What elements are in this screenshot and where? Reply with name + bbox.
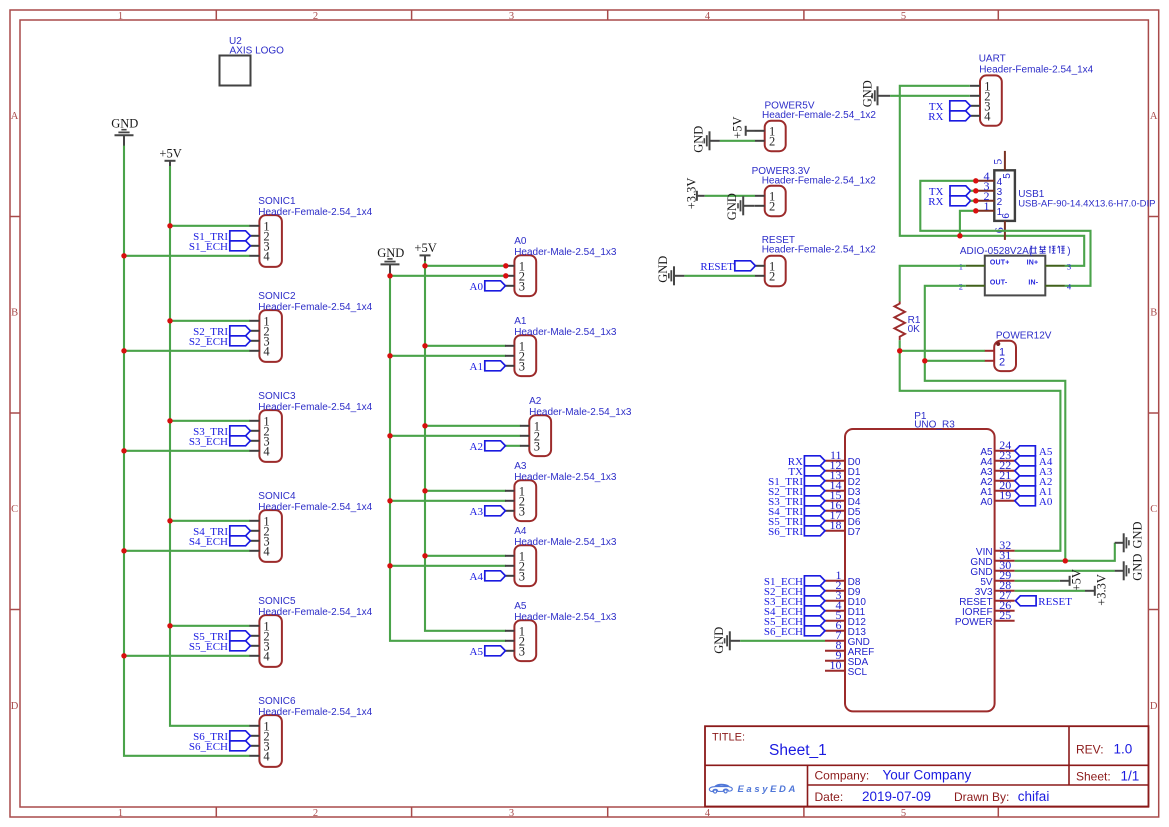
easyeda logo — [709, 784, 798, 795]
pin 18 D7 of P1 — [825, 518, 861, 538]
svg-text:+3.3V: +3.3V — [684, 178, 698, 210]
pin 29 5V of P1 — [980, 568, 1014, 588]
pin 27 RESET of P1 — [959, 588, 1014, 608]
svg-text:RX: RX — [928, 196, 943, 208]
pin 4 D11 of P1 — [825, 598, 866, 618]
net flag A0 at P1 right — [1015, 496, 1053, 508]
wire RX flag to USB pin2 — [971, 200, 977, 202]
wire GND rail to SONIC3 pin4 — [124, 450, 250, 452]
svg-text:IN+: IN+ — [1027, 260, 1039, 267]
net flag A3 at P1 right — [1015, 466, 1053, 478]
pin 13 D2 of P1 — [825, 468, 861, 488]
pin 21 A2 of P1 — [980, 468, 1014, 488]
net flag S5_ECH — [189, 641, 251, 653]
power symbol GND at RESET pin2 — [656, 256, 684, 286]
pin 6 D13 of P1 — [825, 618, 866, 638]
junction USB1 pin2 — [973, 198, 978, 203]
module U3 ADIO-0528V2A boost converter — [959, 246, 1072, 296]
svg-text:REV:: REV: — [1076, 743, 1104, 757]
svg-text:5: 5 — [901, 11, 906, 22]
svg-text:Header-Male-2.54_1x3: Header-Male-2.54_1x3 — [514, 327, 617, 338]
svg-text:GND: GND — [860, 80, 874, 107]
junction GND net / ADIO OUT- — [1063, 558, 1068, 563]
net flag S1_TRI at P1 — [768, 476, 825, 488]
svg-text:3: 3 — [509, 11, 514, 22]
wire +5V rail to A4 pin1 — [425, 555, 506, 557]
header POWER5V Header-Female-2.54_1x2 — [755, 101, 876, 152]
header POWER3.3V Header-Female-2.54_1x2 — [752, 166, 876, 216]
wire +3.3V to POWER3.3V pin1 — [705, 195, 755, 197]
junction +5V rail SONIC3 — [167, 418, 172, 423]
net flag S4_TRI at P1 — [768, 506, 825, 518]
svg-text:2: 2 — [769, 199, 775, 213]
svg-text:UART: UART — [979, 54, 1006, 65]
junction GND rail A3 — [387, 498, 392, 503]
svg-text:1: 1 — [984, 199, 990, 213]
junction POWER12V pin2 branch — [922, 358, 927, 363]
net flag A3 — [470, 506, 506, 518]
mcu board P1 UNO_R3 — [845, 411, 995, 712]
svg-text:5: 5 — [990, 159, 1004, 165]
svg-text:+3.3V: +3.3V — [1095, 574, 1109, 606]
wire GND to P1 pin7 — [740, 640, 825, 642]
svg-text:SCL: SCL — [848, 667, 868, 678]
pin 10 SCL of P1 — [825, 658, 867, 678]
svg-text:SONIC2: SONIC2 — [258, 291, 296, 302]
wire USB pin1 to UART1 net — [960, 211, 977, 236]
svg-text:A1: A1 — [514, 316, 527, 327]
junction +5V rail A4 — [422, 553, 427, 558]
svg-text:1: 1 — [118, 808, 123, 819]
svg-text:S6_ECH: S6_ECH — [764, 626, 803, 638]
wire GND rail to A0 pin2 — [390, 275, 506, 277]
svg-text:A1: A1 — [470, 361, 483, 373]
net flag RESET at P1 pin27 — [1016, 596, 1073, 608]
junction GND rail SONIC1 — [121, 253, 126, 258]
svg-text:USB-AF-90-14.4X13.6-H7.0-DIP: USB-AF-90-14.4X13.6-H7.0-DIP — [1018, 198, 1155, 209]
wire GND rail to SONIC4 pin4 — [124, 550, 250, 552]
wire GND rail to SONIC2 pin4 — [124, 350, 250, 352]
svg-text:GND: GND — [691, 126, 705, 153]
pin 7 GND of P1 — [825, 628, 870, 648]
svg-text:C: C — [11, 504, 18, 515]
svg-text:UNO_R3: UNO_R3 — [914, 419, 955, 430]
svg-text:D7: D7 — [848, 527, 861, 538]
svg-text:10: 10 — [830, 658, 842, 672]
svg-text:0K: 0K — [908, 324, 921, 335]
pin 31 GND of P1 — [970, 548, 1014, 568]
net flag S3_ECH — [189, 436, 251, 448]
junction GND rail SONIC5 — [121, 653, 126, 658]
svg-text:Header-Male-2.54_1x3: Header-Male-2.54_1x3 — [514, 537, 617, 548]
net flag S2_ECH at P1 — [764, 586, 825, 598]
svg-text:Header-Female-2.54_1x4: Header-Female-2.54_1x4 — [979, 64, 1093, 75]
wire GND to POWER5V pin2 — [720, 140, 755, 142]
connector USB1 USB-AF-90-14.4X13.6-H7.0-DIP — [977, 151, 1155, 240]
svg-text:4: 4 — [705, 11, 711, 22]
wire GND left rail vertical to SONIC6 pin4 — [124, 146, 250, 756]
net flag TX at USB pin3 — [929, 186, 971, 198]
svg-text:A0: A0 — [1039, 496, 1053, 508]
wire +5V rail to SONIC2 pin1 — [170, 320, 250, 322]
junction GND rail A0 — [387, 273, 392, 278]
svg-text:A2: A2 — [529, 396, 542, 407]
net flag A2 — [470, 441, 506, 453]
junction GND rail SONIC3 — [121, 448, 126, 453]
pin 3 D10 of P1 — [825, 588, 866, 608]
net flag S6_TRI at P1 — [768, 526, 825, 538]
wire GND rail to A2 pin2 — [390, 435, 520, 437]
pin 32 VIN of P1 — [976, 538, 1015, 558]
wire USB pin4 to ADIO IN- — [920, 181, 1090, 286]
svg-text:3: 3 — [519, 279, 525, 293]
net flag RX at P1 — [788, 456, 825, 468]
net flag S6_ECH — [189, 741, 251, 753]
wire GND to UART pin2 — [890, 95, 970, 97]
svg-text:SONIC3: SONIC3 — [258, 391, 296, 402]
svg-text:OUT-: OUT- — [990, 280, 1008, 287]
svg-text:4: 4 — [263, 749, 270, 763]
header SONIC2 Header-Female-2.54_1x4 — [249, 291, 372, 362]
svg-text:RESET: RESET — [700, 261, 734, 273]
wire +5V rail to A1 pin1 — [425, 345, 506, 347]
svg-text:Your Company: Your Company — [883, 768, 972, 783]
svg-text:A4: A4 — [514, 526, 527, 537]
junction +5V rail SONIC5 — [167, 623, 172, 628]
pin 9 SDA of P1 — [825, 648, 868, 668]
svg-text:5: 5 — [1002, 173, 1013, 179]
svg-text:Header-Female-2.54_1x4: Header-Female-2.54_1x4 — [258, 502, 372, 513]
junction wire end A0 pin2 — [503, 273, 508, 278]
junction USB1 pin1 — [973, 208, 978, 213]
svg-text:2: 2 — [313, 808, 318, 819]
pin 20 A1 of P1 — [980, 478, 1014, 498]
svg-text:Header-Female-2.54_1x2: Header-Female-2.54_1x2 — [762, 176, 876, 187]
svg-text:Header-Female-2.54_1x2: Header-Female-2.54_1x2 — [762, 110, 876, 121]
pin 26 IOREF of P1 — [962, 598, 1015, 618]
wire A2 net flag to pin3 — [505, 445, 520, 447]
pin 19 A0 of P1 — [980, 488, 1014, 508]
wire ADIO OUT- to GND net — [925, 286, 1066, 561]
svg-text:Sheet_1: Sheet_1 — [769, 742, 827, 759]
net flag S2_TRI — [193, 326, 250, 338]
svg-text:SONIC1: SONIC1 — [258, 196, 296, 207]
net flag A5 at P1 right — [1015, 446, 1053, 458]
wire GND rail to A3 pin2 — [390, 500, 506, 502]
svg-text:A0: A0 — [980, 497, 993, 508]
pin 24 A5 of P1 — [980, 438, 1014, 458]
net flag S3_TRI at P1 — [768, 496, 825, 508]
net flag TX at UART pin3 — [929, 101, 971, 113]
header POWER12V — [985, 330, 1052, 371]
svg-text:6: 6 — [1001, 213, 1012, 219]
svg-text:3: 3 — [519, 569, 525, 583]
svg-text:S6_TRI: S6_TRI — [768, 526, 803, 538]
svg-text:3: 3 — [519, 504, 525, 518]
junction +5V rail A2 — [422, 423, 427, 428]
junction USB1 pin3 — [973, 188, 978, 193]
junction +5V rail SONIC1 — [167, 223, 172, 228]
wire GND rail to A4 pin2 — [390, 565, 506, 567]
power symbol GND at P1 pin7 — [712, 627, 740, 654]
svg-text:POWER12V: POWER12V — [996, 330, 1052, 341]
net flag RX at UART pin4 — [928, 111, 970, 123]
junction +5V rail SONIC4 — [167, 518, 172, 523]
wire GND to RESET pin2 — [684, 275, 755, 277]
pin 1 D8 of P1 — [825, 568, 861, 588]
header SONIC4 Header-Female-2.54_1x4 — [249, 491, 372, 562]
net flag S1_ECH — [189, 241, 251, 253]
pin 16 D5 of P1 — [825, 498, 861, 518]
net flag S6_ECH at P1 — [764, 626, 825, 638]
net flag S3_ECH at P1 — [764, 596, 825, 608]
svg-text:D: D — [11, 701, 19, 712]
power symbol GND at UART pin2 — [860, 80, 890, 107]
svg-text:A0: A0 — [470, 281, 484, 293]
wire GND analog rail vertical to A5 pin2 — [390, 275, 506, 641]
svg-text:RESET: RESET — [1038, 596, 1072, 608]
power symbol GND (left rail) — [111, 117, 138, 147]
svg-text:Company:: Company: — [815, 769, 870, 783]
net flag S6_TRI — [193, 731, 250, 743]
wire GND rail to SONIC1 pin4 — [124, 255, 250, 257]
power symbol +3.3V at P1 pin28 — [1085, 574, 1109, 606]
power symbol +5V (left rail) — [159, 146, 181, 171]
svg-text:A3: A3 — [470, 506, 484, 518]
svg-text:A5: A5 — [514, 601, 527, 612]
svg-text:): ) — [1067, 246, 1070, 257]
net flag S1_TRI — [193, 231, 250, 243]
header A3 Header-Male-2.54_1x3 — [505, 461, 617, 521]
svg-text:POWER: POWER — [955, 617, 993, 628]
svg-text:3: 3 — [1067, 261, 1071, 271]
net flag A1 — [470, 361, 506, 373]
svg-text:+5V: +5V — [731, 116, 745, 138]
net flag A5 — [470, 646, 506, 658]
svg-text:Header-Female-2.54_1x4: Header-Female-2.54_1x4 — [258, 207, 372, 218]
svg-text:Header-Male-2.54_1x3: Header-Male-2.54_1x3 — [529, 407, 632, 418]
power symbol +3.3V at POWER3.3V pin1 — [684, 178, 704, 210]
svg-text:S5_ECH: S5_ECH — [189, 641, 228, 653]
svg-text:SONIC6: SONIC6 — [258, 696, 296, 707]
wire GND rail to SONIC5 pin4 — [124, 655, 250, 657]
junction +5V rail SONIC2 — [167, 318, 172, 323]
svg-text:C: C — [1150, 504, 1157, 515]
svg-text:RX: RX — [928, 111, 943, 123]
svg-text:GND: GND — [111, 117, 138, 131]
junction +5V rail A0 — [422, 263, 427, 268]
header A2 Header-Male-2.54_1x3 — [520, 396, 632, 456]
wire P1 GND pin30 to GND symbol — [1015, 570, 1115, 572]
svg-text:Header-Male-2.54_1x3: Header-Male-2.54_1x3 — [514, 247, 617, 258]
svg-text:+5V: +5V — [1069, 569, 1083, 591]
svg-text:Header-Male-2.54_1x3: Header-Male-2.54_1x3 — [514, 612, 617, 623]
svg-text:+5V: +5V — [414, 241, 436, 255]
net flag S4_TRI — [193, 526, 250, 538]
svg-text:GND: GND — [1131, 521, 1145, 548]
svg-text:A: A — [1150, 111, 1158, 122]
svg-text:Header-Female-2.54_1x2: Header-Female-2.54_1x2 — [762, 244, 876, 255]
svg-text:D: D — [1150, 701, 1158, 712]
svg-text:2: 2 — [769, 269, 775, 283]
wire +5V rail to A2 pin1 — [425, 425, 520, 427]
power symbol +5V (analog rail) — [414, 241, 436, 266]
net flag RX at USB pin2 — [928, 196, 970, 208]
wire +5V rail to A0 pin1 — [425, 265, 506, 267]
header SONIC5 Header-Female-2.54_1x4 — [249, 596, 372, 667]
svg-text:GND: GND — [725, 193, 739, 220]
svg-text:4: 4 — [263, 344, 270, 358]
logo part U2 AXIS LOGO — [220, 36, 285, 86]
svg-text:4: 4 — [263, 544, 270, 558]
wire +5V rail to SONIC5 pin1 — [170, 625, 250, 627]
wire TX flag to USB pin3 — [971, 190, 977, 192]
net flag S5_ECH at P1 — [764, 616, 825, 628]
power symbol GND at P1 pin30 — [1115, 554, 1145, 581]
header UART Header-Female-2.54_1x4 — [970, 54, 1094, 126]
svg-text:4: 4 — [705, 808, 711, 819]
svg-text:S4_ECH: S4_ECH — [189, 536, 228, 548]
junction GND rail A2 — [387, 433, 392, 438]
svg-text:2: 2 — [769, 134, 775, 148]
svg-text:IN-: IN- — [1028, 280, 1038, 287]
svg-text:A4: A4 — [470, 571, 484, 583]
net flag S4_ECH — [189, 536, 251, 548]
wire +5V rail to SONIC4 pin1 — [170, 520, 250, 522]
net flag RESET at header — [700, 261, 755, 273]
svg-text:S6_ECH: S6_ECH — [189, 741, 228, 753]
junction USB1 pin4 — [973, 178, 978, 183]
power symbol +5V at P1 pin29 — [1060, 569, 1084, 591]
svg-text:SONIC5: SONIC5 — [258, 596, 296, 607]
svg-text:19: 19 — [999, 488, 1011, 502]
net flag S1_ECH at P1 — [764, 576, 825, 588]
junction GND rail SONIC2 — [121, 348, 126, 353]
header SONIC3 Header-Female-2.54_1x4 — [249, 391, 372, 462]
svg-text:1/1: 1/1 — [1121, 769, 1140, 784]
svg-text:A0: A0 — [514, 236, 527, 247]
svg-text:18: 18 — [830, 518, 842, 532]
svg-text:A2: A2 — [470, 441, 483, 453]
wire POWER12V pin2 branch — [925, 360, 985, 362]
net flag A2 at P1 right — [1015, 476, 1053, 488]
svg-text:1: 1 — [118, 11, 123, 22]
wire +5V analog rail vertical to A5 pin1 — [425, 261, 506, 631]
junction GND rail SONIC4 — [121, 548, 126, 553]
header SONIC1 Header-Female-2.54_1x4 — [249, 196, 372, 267]
svg-text:A: A — [11, 111, 19, 122]
svg-text:3: 3 — [509, 808, 514, 819]
svg-text:1.0: 1.0 — [1114, 742, 1133, 757]
pin 17 D6 of P1 — [825, 508, 861, 528]
net flag S3_TRI — [193, 426, 250, 438]
svg-text:A5: A5 — [470, 646, 484, 658]
svg-text:S3_ECH: S3_ECH — [189, 436, 228, 448]
net flag TX at P1 — [788, 466, 825, 478]
junction GND rail A1 — [387, 353, 392, 358]
pin 23 A4 of P1 — [980, 448, 1014, 468]
wire ADIO OUT+ to R1 — [900, 266, 966, 302]
pin 22 A3 of P1 — [980, 458, 1014, 478]
title block — [705, 726, 1149, 806]
header A4 Header-Male-2.54_1x3 — [505, 526, 617, 586]
wire P1 GND pin31 to GND symbol — [1015, 543, 1115, 561]
power symbol GND at POWER5V pin2 — [691, 126, 720, 153]
wire +5V rail to SONIC3 pin1 — [170, 420, 250, 422]
svg-text:3: 3 — [519, 644, 525, 658]
net flag S4_ECH at P1 — [764, 606, 825, 618]
svg-text:Sheet:: Sheet: — [1076, 770, 1111, 784]
junction R1 / POWER12V pin1 — [897, 348, 902, 353]
pin 11 D0 of P1 — [825, 448, 861, 468]
junction +5V rail A3 — [422, 488, 427, 493]
svg-text:OUT+: OUT+ — [990, 260, 1010, 267]
wire P1 5V pin29 to +5V symbol — [1015, 580, 1060, 582]
power symbol +5V at POWER5V pin1 — [731, 116, 755, 138]
svg-text:B: B — [11, 308, 18, 319]
wire +5V rail to SONIC1 pin1 — [170, 225, 250, 227]
net flag A0 — [470, 281, 506, 293]
svg-text:2: 2 — [313, 11, 318, 22]
svg-text:Date:: Date: — [815, 790, 844, 804]
svg-text:4: 4 — [984, 109, 991, 123]
pin 28 3V3 of P1 — [975, 578, 1015, 598]
pin 15 D4 of P1 — [825, 488, 861, 508]
svg-text:4: 4 — [263, 249, 270, 263]
pin 2 D9 of P1 — [825, 578, 861, 598]
svg-text:Header-Female-2.54_1x4: Header-Female-2.54_1x4 — [258, 707, 372, 718]
net flag A4 — [470, 571, 506, 583]
junction GND rail A4 — [387, 563, 392, 568]
svg-text:Drawn By:: Drawn By: — [954, 790, 1009, 804]
net flag A1 at P1 right — [1015, 486, 1053, 498]
pin 5 D12 of P1 — [825, 608, 866, 628]
wire +5V rail to A3 pin1 — [425, 490, 506, 492]
junction wire end A0 pin1 — [503, 263, 508, 268]
svg-text:A3: A3 — [514, 461, 527, 472]
wire R1 to VIN net — [900, 340, 1061, 551]
svg-text:25: 25 — [999, 608, 1011, 622]
pin 30 GND of P1 — [970, 558, 1014, 578]
net flag A4 at P1 right — [1015, 456, 1053, 468]
header A0 Header-Male-2.54_1x3 — [505, 236, 617, 296]
net flag S5_TRI — [193, 631, 250, 643]
svg-text:4: 4 — [263, 649, 270, 663]
svg-text:Header-Female-2.54_1x4: Header-Female-2.54_1x4 — [258, 302, 372, 313]
svg-text:2019-07-09: 2019-07-09 — [862, 789, 931, 804]
svg-text:4: 4 — [263, 444, 270, 458]
power symbol GND at P1 pin31 — [1115, 521, 1145, 552]
power symbol GND (analog rail) — [377, 246, 404, 275]
pin 25 POWER of P1 — [955, 608, 1015, 628]
wire P1 3V3 pin28 to +3.3V symbol — [1015, 590, 1085, 592]
header A5 Header-Male-2.54_1x3 — [505, 601, 617, 661]
wire UART pin1 to ADIO IN+ (net UART1) — [900, 86, 1084, 266]
wire POWER12V pin1 branch — [900, 350, 985, 352]
pin 8 AREF of P1 — [825, 638, 874, 658]
svg-text:S1_ECH: S1_ECH — [189, 241, 228, 253]
pin 14 D3 of P1 — [825, 478, 861, 498]
svg-text:EasyEDA: EasyEDA — [738, 784, 798, 795]
power symbol GND at POWER3.3V pin2 — [725, 193, 755, 220]
svg-text:TITLE:: TITLE: — [712, 731, 745, 743]
svg-text:ADIO-0528V2A(: ADIO-0528V2A( — [960, 246, 1033, 257]
svg-text:3: 3 — [519, 359, 525, 373]
svg-text:Header-Male-2.54_1x3: Header-Male-2.54_1x3 — [514, 472, 617, 483]
svg-text:GND: GND — [1131, 554, 1145, 581]
svg-text:AXIS LOGO: AXIS LOGO — [230, 46, 285, 57]
net flag S2_TRI at P1 — [768, 486, 825, 498]
